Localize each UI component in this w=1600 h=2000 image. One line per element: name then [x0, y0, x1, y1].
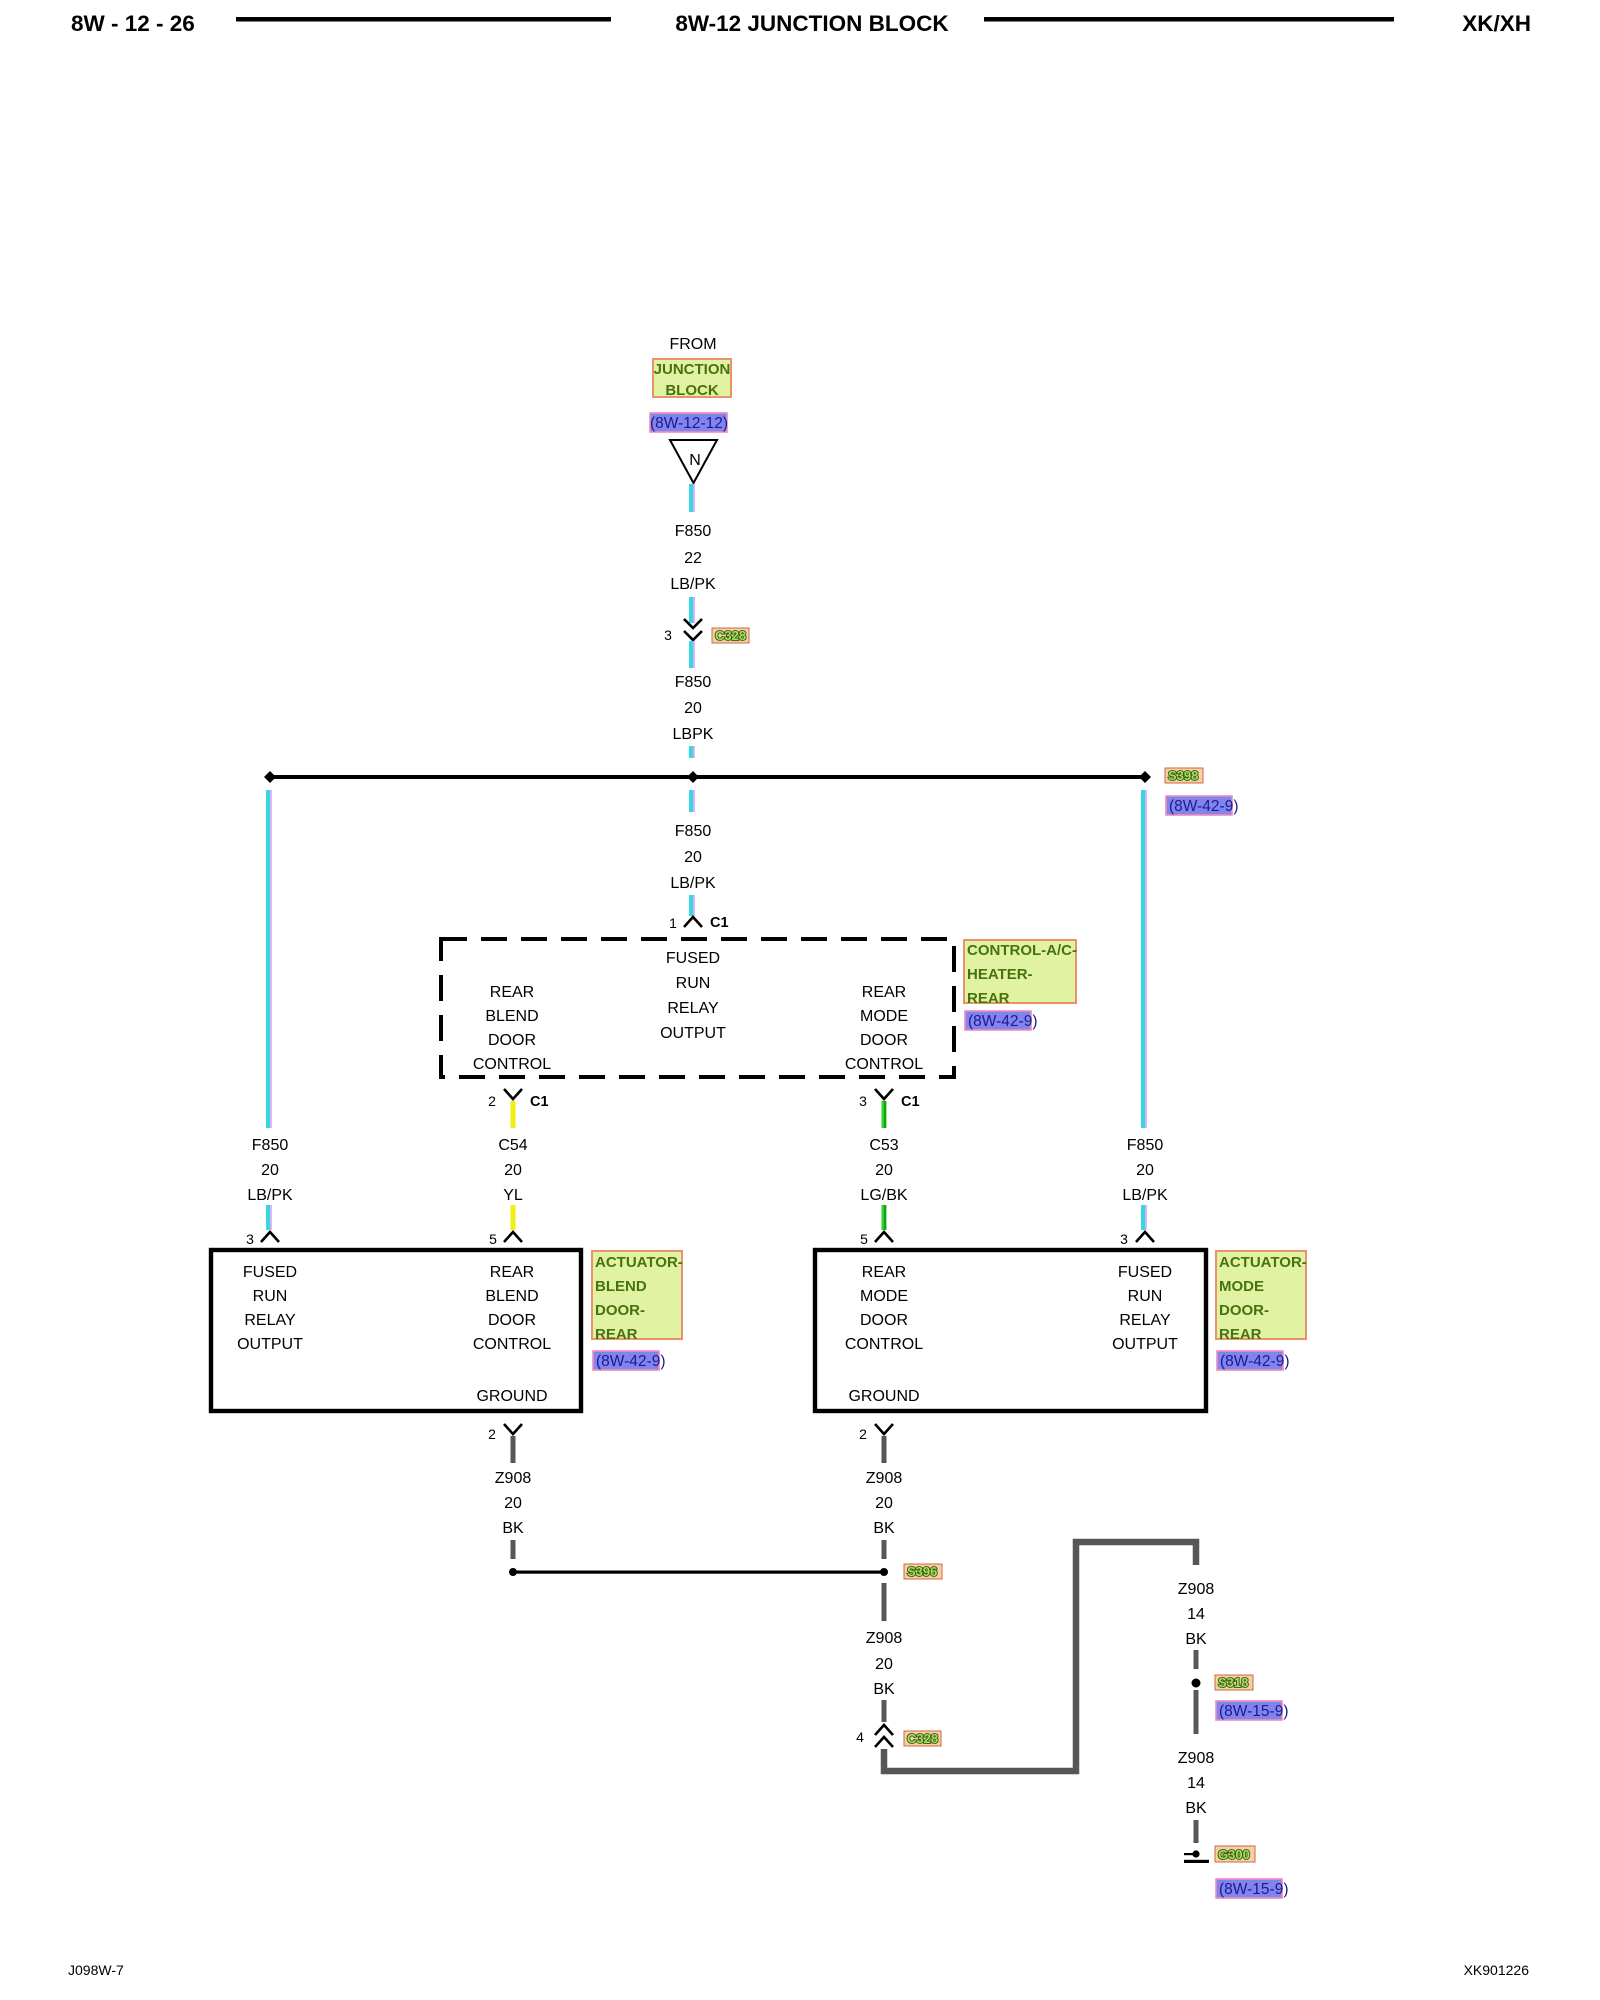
svg-text:REAR: REAR [862, 984, 906, 1001]
connector C1 pin 2 [488, 1089, 548, 1110]
svg-text:20: 20 [1136, 1162, 1154, 1179]
wire Z908 routing [884, 1542, 1196, 1771]
svg-text:BK: BK [873, 1520, 895, 1537]
svg-text:DOOR: DOOR [488, 1032, 536, 1049]
svg-text:8W - 12 - 26: 8W - 12 - 26 [71, 11, 195, 36]
pin 5 into actuator-blend box [489, 1231, 522, 1247]
svg-text:BLOCK: BLOCK [665, 382, 718, 399]
svg-text:(8W-42-9): (8W-42-9) [1220, 1353, 1289, 1370]
svg-text:OUTPUT: OUTPUT [237, 1336, 303, 1353]
wire F850 20 LB/PK center drop [670, 790, 716, 916]
svg-text:1: 1 [669, 915, 677, 931]
wire F850 22 LB/PK [670, 484, 716, 623]
ref (8W-15-9) [1216, 1701, 1288, 1720]
label C328 [712, 628, 749, 643]
svg-text:RELAY: RELAY [244, 1312, 296, 1329]
svg-text:20: 20 [261, 1162, 279, 1179]
svg-text:RUN: RUN [253, 1288, 288, 1305]
svg-text:5: 5 [489, 1231, 497, 1247]
svg-text:BK: BK [502, 1520, 524, 1537]
label CONTROL-A/C-HEATER-REAR [964, 940, 1077, 1007]
svg-text:C1: C1 [530, 1094, 549, 1110]
svg-text:DOOR: DOOR [488, 1312, 536, 1329]
svg-text:CONTROL: CONTROL [845, 1056, 923, 1073]
svg-text:8W-12 JUNCTION BLOCK: 8W-12 JUNCTION BLOCK [675, 11, 949, 36]
svg-text:F850: F850 [252, 1137, 289, 1154]
wire Z908 20 BK right [866, 1436, 903, 1559]
module box CONTROL-A/C-HEATER-REAR (dashed) [441, 939, 954, 1077]
svg-text:S318: S318 [1218, 1675, 1248, 1690]
label S396 [904, 1564, 942, 1579]
svg-text:FUSED: FUSED [1118, 1264, 1172, 1281]
svg-text:RELAY: RELAY [667, 1000, 719, 1017]
wire Z908 20 BK to C328 [866, 1583, 903, 1722]
svg-text:(8W-15-9): (8W-15-9) [1219, 1881, 1288, 1898]
svg-text:3: 3 [859, 1093, 867, 1109]
svg-text:LB/PK: LB/PK [670, 576, 716, 593]
svg-text:OUTPUT: OUTPUT [660, 1025, 726, 1042]
page footer [68, 1962, 1529, 1978]
svg-text:20: 20 [684, 849, 702, 866]
svg-text:LG/BK: LG/BK [860, 1187, 907, 1204]
svg-text:2: 2 [859, 1426, 867, 1442]
svg-text:F850: F850 [1127, 1137, 1164, 1154]
ref (8W-42-9) [1166, 796, 1238, 815]
wire Z908 14 BK [1178, 1581, 1215, 1669]
svg-text:BLEND: BLEND [485, 1008, 538, 1025]
svg-text:Z908: Z908 [866, 1470, 903, 1487]
svg-text:(8W-42-9): (8W-42-9) [596, 1353, 665, 1370]
svg-text:22: 22 [684, 550, 702, 567]
svg-text:C328: C328 [907, 1731, 938, 1746]
page header [71, 11, 1531, 36]
connector C1 pin 1 [669, 915, 728, 931]
svg-text:(8W-15-9): (8W-15-9) [1219, 1703, 1288, 1720]
svg-text:Z908: Z908 [866, 1630, 903, 1647]
svg-text:REAR: REAR [595, 1326, 638, 1343]
ground G300 [1184, 1850, 1209, 1863]
svg-text:20: 20 [875, 1495, 893, 1512]
svg-text:CONTROL: CONTROL [473, 1056, 551, 1073]
svg-text:3: 3 [664, 627, 672, 643]
label C328 [904, 1731, 941, 1746]
svg-text:REAR: REAR [967, 990, 1010, 1007]
wire F850 20 LB/PK right drop [1122, 790, 1168, 1230]
svg-text:GROUND: GROUND [848, 1388, 919, 1405]
wire F850 20 LB/PK left drop [247, 790, 293, 1230]
splice S318 [1192, 1679, 1201, 1688]
svg-text:3: 3 [1120, 1231, 1128, 1247]
svg-text:BLEND: BLEND [595, 1278, 647, 1295]
svg-text:OUTPUT: OUTPUT [1112, 1336, 1178, 1353]
label S318 [1215, 1675, 1253, 1690]
svg-text:GROUND: GROUND [476, 1388, 547, 1405]
label ACTUATOR-MODE DOOR-REAR [1216, 1251, 1307, 1343]
svg-text:BK: BK [873, 1681, 895, 1698]
svg-text:DOOR-: DOOR- [1219, 1302, 1269, 1319]
label FROM [669, 336, 716, 353]
svg-text:DOOR: DOOR [860, 1312, 908, 1329]
svg-text:C328: C328 [715, 628, 746, 643]
svg-text:5: 5 [860, 1231, 868, 1247]
pin 5 into actuator-mode box [860, 1231, 893, 1247]
svg-text:REAR: REAR [490, 1264, 534, 1281]
svg-text:RUN: RUN [676, 975, 711, 992]
svg-text:CONTROL: CONTROL [473, 1336, 551, 1353]
svg-text:2: 2 [488, 1426, 496, 1442]
svg-text:YL: YL [503, 1187, 523, 1204]
ref (8W-42-9) [1217, 1351, 1289, 1370]
svg-text:Z908: Z908 [1178, 1750, 1215, 1767]
svg-text:MODE: MODE [860, 1008, 908, 1025]
svg-text:(8W-42-9): (8W-42-9) [1169, 798, 1238, 815]
svg-text:REAR: REAR [862, 1264, 906, 1281]
svg-text:FUSED: FUSED [243, 1264, 297, 1281]
ref (8W-42-9) [965, 1011, 1037, 1030]
svg-text:CONTROL-A/C-: CONTROL-A/C- [967, 942, 1077, 959]
svg-text:N: N [689, 452, 701, 469]
connector C1 pin 3 [859, 1089, 919, 1110]
svg-text:ACTUATOR-: ACTUATOR- [1219, 1254, 1307, 1271]
wire C53 20 LG/BK [860, 1101, 907, 1230]
svg-text:BK: BK [1185, 1631, 1207, 1648]
svg-text:14: 14 [1187, 1775, 1205, 1792]
svg-text:XK/XH: XK/XH [1462, 11, 1531, 36]
svg-text:C1: C1 [901, 1094, 920, 1110]
svg-text:MODE: MODE [860, 1288, 908, 1305]
svg-text:20: 20 [684, 700, 702, 717]
svg-text:14: 14 [1187, 1606, 1205, 1623]
svg-text:20: 20 [875, 1162, 893, 1179]
svg-text:HEATER-: HEATER- [967, 966, 1033, 983]
svg-text:LB/PK: LB/PK [670, 875, 716, 892]
svg-text:MODE: MODE [1219, 1278, 1264, 1295]
pin 3 into actuator-mode box [1120, 1231, 1154, 1247]
svg-text:CONTROL: CONTROL [845, 1336, 923, 1353]
ref (8W-15-9) [1216, 1879, 1288, 1898]
splice S398 [264, 771, 1151, 783]
svg-text:20: 20 [504, 1495, 522, 1512]
node N triangle [670, 440, 717, 483]
svg-text:RUN: RUN [1128, 1288, 1163, 1305]
svg-text:S396: S396 [907, 1564, 937, 1579]
svg-text:LBPK: LBPK [673, 726, 714, 743]
wire Z908 14 BK lower [1178, 1690, 1215, 1843]
svg-text:(8W-12-12): (8W-12-12) [650, 415, 728, 432]
svg-text:LB/PK: LB/PK [1122, 1187, 1168, 1204]
svg-text:2: 2 [488, 1093, 496, 1109]
svg-text:F850: F850 [675, 823, 712, 840]
svg-text:Z908: Z908 [1178, 1581, 1215, 1598]
svg-text:REAR: REAR [490, 984, 534, 1001]
svg-text:C54: C54 [498, 1137, 527, 1154]
label G300 [1215, 1846, 1255, 1862]
wire F850 20 LBPK [673, 641, 714, 758]
svg-text:C53: C53 [869, 1137, 898, 1154]
label ACTUATOR-BLEND DOOR-REAR [592, 1251, 683, 1343]
svg-text:DOOR: DOOR [860, 1032, 908, 1049]
svg-text:4: 4 [856, 1729, 864, 1745]
svg-text:DOOR-: DOOR- [595, 1302, 645, 1319]
svg-text:Z908: Z908 [495, 1470, 532, 1487]
svg-text:20: 20 [875, 1656, 893, 1673]
svg-text:(8W-42-9): (8W-42-9) [968, 1013, 1037, 1030]
splice S396 [509, 1568, 888, 1576]
wire C54 20 YL [498, 1101, 527, 1230]
svg-text:20: 20 [504, 1162, 522, 1179]
pin 3 into actuator-blend box [246, 1231, 279, 1247]
svg-text:RELAY: RELAY [1119, 1312, 1171, 1329]
svg-text:J098W-7: J098W-7 [68, 1962, 124, 1978]
svg-text:BK: BK [1185, 1800, 1207, 1817]
svg-text:3: 3 [246, 1231, 254, 1247]
svg-text:G300: G300 [1218, 1847, 1250, 1862]
svg-text:F850: F850 [675, 523, 712, 540]
svg-text:S398: S398 [1168, 768, 1198, 783]
svg-text:FROM: FROM [669, 336, 716, 353]
svg-text:LB/PK: LB/PK [247, 1187, 293, 1204]
component box ACTUATOR-BLEND DOOR-REAR [211, 1250, 581, 1411]
svg-text:F850: F850 [675, 674, 712, 691]
ref (8W-12-12) [650, 413, 728, 432]
connector C328 pin 3 [664, 619, 702, 643]
svg-text:BLEND: BLEND [485, 1288, 538, 1305]
junction block source box [653, 359, 731, 399]
label S398 [1165, 768, 1203, 783]
svg-text:ACTUATOR-: ACTUATOR- [595, 1254, 683, 1271]
pin 2 ground right [859, 1424, 893, 1442]
svg-text:REAR: REAR [1219, 1326, 1262, 1343]
ref (8W-42-9) [593, 1351, 665, 1370]
component box ACTUATOR-MODE DOOR-REAR [815, 1250, 1206, 1411]
svg-text:FUSED: FUSED [666, 950, 720, 967]
svg-text:C1: C1 [710, 915, 729, 931]
svg-text:JUNCTION: JUNCTION [654, 361, 731, 378]
connector C328 pin 4 [856, 1725, 893, 1747]
wire Z908 20 BK left [495, 1436, 532, 1559]
pin 2 ground left [488, 1424, 522, 1442]
svg-text:XK901226: XK901226 [1464, 1962, 1530, 1978]
